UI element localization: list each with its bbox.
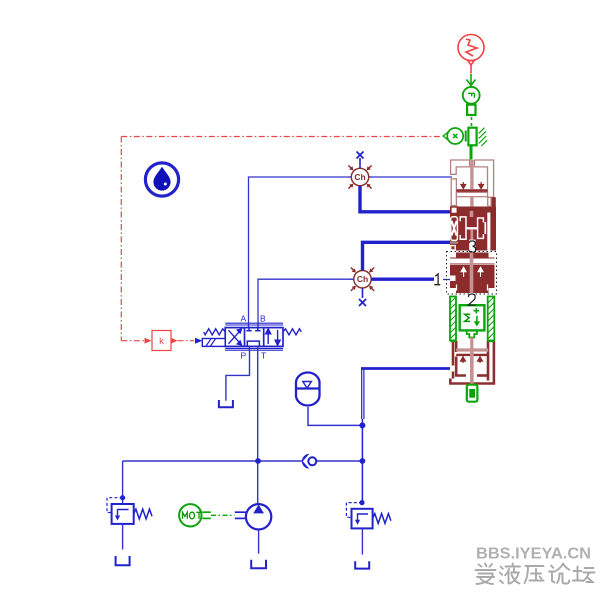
- gain block K1: [152, 331, 171, 351]
- wire P port to tank: [226, 346, 250, 400]
- wire CH1 right to valve: [369, 176, 452, 178]
- selection marquee around section C: [447, 252, 497, 295]
- 爱: [476, 564, 496, 585]
- wire RV2 to tank: [361, 528, 363, 554]
- relief valve RV2: [346, 503, 391, 529]
- svg-text:T: T: [261, 351, 266, 361]
- left cell crossed arrows: [229, 329, 242, 345]
- rod: [470, 253, 474, 294]
- arrow out of gain k: [171, 338, 178, 344]
- arrow into solenoid (blue): [195, 338, 202, 344]
- svg-text:Ch: Ch: [354, 172, 365, 182]
- force element F1: [463, 87, 480, 104]
- force element port: [467, 105, 475, 115]
- red control dash-dot line (x sensor feedback loop): [121, 137, 441, 341]
- plugged port above CH1: [359, 158, 361, 168]
- link force to spool piston (dashed): [471, 117, 473, 127]
- mass body box: [460, 305, 485, 330]
- svg-text:A: A: [241, 314, 247, 324]
- wire valve lower port down to pump line: [361, 367, 450, 370]
- svg-text:Ch: Ch: [357, 274, 368, 284]
- section D: mass with friction (green): [450, 297, 494, 351]
- wire A port to CH1: [249, 177, 352, 328]
- up arrows white: [461, 267, 483, 277]
- hydraulic chamber CH1: [347, 164, 374, 191]
- rod to section E: [470, 338, 473, 351]
- hydraulic chamber CH2: [349, 266, 376, 293]
- rod from piston into valve: [470, 146, 473, 160]
- signal source SIG1: [458, 35, 484, 74]
- spool lands (H profile): [460, 217, 483, 239]
- tank T2: [116, 556, 130, 565]
- left metering box: [451, 217, 458, 241]
- relief valve RV1: [107, 498, 152, 524]
- bottom white notches: [457, 285, 488, 291]
- directional valve DV1: [202, 314, 301, 361]
- rose band bottom-left: [450, 241, 458, 243]
- wire T port to pump: [257, 346, 259, 504]
- left spring: [204, 329, 226, 335]
- wire RV1 to tank: [122, 524, 124, 550]
- tank T1 (under valve): [219, 400, 233, 407]
- check valve CV1: [308, 457, 316, 465]
- oil properties icon OIL1: [145, 163, 178, 196]
- down arrow: [476, 316, 478, 323]
- wire B port to CH2: [258, 279, 354, 327]
- wire to relief valve RV1: [122, 461, 124, 504]
- section E piston: [456, 348, 488, 351]
- solenoid: [202, 339, 225, 347]
- svg-text:BBS.IYEYA.CN: BBS.IYEYA.CN: [476, 546, 591, 563]
- lower port: [467, 330, 477, 337]
- white transverse slot: [450, 259, 495, 265]
- M letter rotated: [465, 314, 471, 321]
- tank T3: [355, 561, 369, 568]
- section A piston plate: [456, 189, 487, 192]
- right cell parallel arrows: [266, 329, 280, 345]
- 坛: [573, 567, 595, 583]
- green column feet: [451, 340, 456, 343]
- centre cell blocked ports: [246, 328, 260, 347]
- 压: [525, 566, 544, 583]
- port label 2: [468, 294, 476, 305]
- prime mover MOT1: [179, 504, 211, 526]
- svg-text:B: B: [260, 314, 266, 324]
- svg-text:k: k: [159, 336, 164, 347]
- wire CH2 top to valve (thick): [363, 242, 451, 270]
- svg-text:P: P: [241, 351, 247, 361]
- section E arrows: [461, 357, 483, 363]
- wire CH2 right to valve port 1 (thick): [372, 278, 435, 281]
- rod continuation: [470, 211, 474, 217]
- junction main/vertical: [360, 458, 366, 464]
- section A arrows: [461, 182, 484, 189]
- section A: upper pilot cylinder: [451, 160, 494, 206]
- wire accumulator to main line: [308, 407, 362, 425]
- tank T4 (pump suction): [251, 560, 266, 568]
- section E rod: [470, 350, 474, 384]
- plugged port below CH2: [362, 288, 364, 298]
- arrow into gain k: [145, 338, 152, 344]
- port label 1: [434, 274, 440, 285]
- section C: lower spool block (dark red): [450, 253, 495, 294]
- plus sign: [474, 308, 480, 314]
- left hatched column: [450, 297, 456, 341]
- right spring: [283, 329, 301, 335]
- pilot junction RV1: [120, 495, 125, 500]
- 论: [549, 564, 570, 584]
- section A rod: [470, 160, 473, 190]
- shaft link MOT to pump (green dash-dot): [211, 514, 235, 516]
- port label 3: [469, 240, 475, 254]
- small white box bottom-left: [451, 246, 455, 250]
- left port slot: [450, 276, 456, 282]
- dash-dot k to valve solenoid: [178, 340, 195, 342]
- sleeve slot right: [487, 213, 490, 251]
- spool piston actuator (mass with end stops): [466, 128, 487, 146]
- section B: spool sleeve block (dark red): [450, 197, 496, 250]
- accumulator ACC1: [296, 372, 320, 405]
- main pressure line: [123, 460, 303, 462]
- wire pump bottom to tank: [258, 530, 260, 554]
- displacement sensor X1: [443, 128, 463, 144]
- right hatched column: [488, 297, 495, 341]
- body: [225, 328, 283, 347]
- watermark 爱液压论坛: [476, 564, 595, 585]
- plugged rod end (green plug): [467, 385, 478, 402]
- white corner squares of marquee: [450, 253, 456, 258]
- 液: [500, 564, 520, 584]
- signal arrow into force element: [467, 74, 476, 86]
- wire CH1 bottom to valve (thick): [360, 186, 450, 212]
- top cover rails: [225, 323, 283, 350]
- junction accumulator/main: [359, 422, 365, 428]
- pump P1: [235, 504, 272, 529]
- junction pump/main: [255, 458, 261, 464]
- section E: lower cylinder: [450, 341, 494, 384]
- pilot junction RV2: [359, 500, 364, 505]
